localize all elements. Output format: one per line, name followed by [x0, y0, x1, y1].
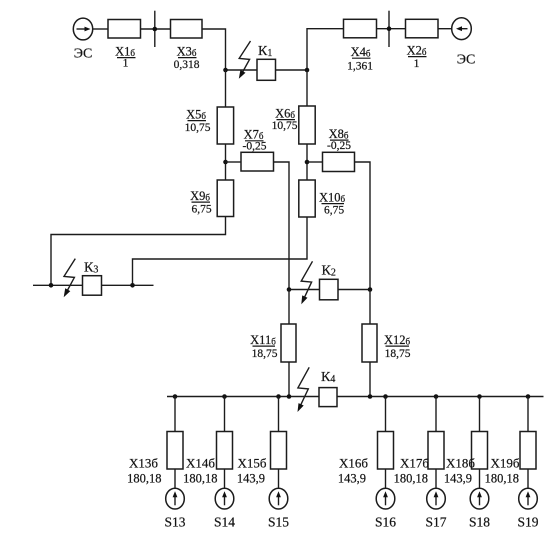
node feeder S19 junction	[526, 394, 531, 399]
svg-text:10,75: 10,75	[272, 120, 298, 132]
label X12b	[384, 333, 411, 347]
svg-text:Х18б: Х18б	[446, 456, 475, 471]
wire X6b to X10b	[306, 144, 308, 180]
svg-text:180,18: 180,18	[394, 472, 428, 486]
svg-text:Х15б: Х15б	[237, 456, 266, 471]
svg-text:-0,25: -0,25	[327, 140, 351, 152]
wire X5b to X9b	[225, 144, 227, 180]
wire source-left to X1b	[93, 28, 108, 30]
resistor X5b	[217, 107, 233, 144]
bus K3	[33, 284, 154, 286]
svg-text:1,361: 1,361	[347, 61, 373, 73]
resistor X13b	[167, 432, 183, 470]
resistor X2b	[406, 19, 439, 38]
label X3b	[177, 45, 197, 59]
svg-text:ЭС: ЭС	[74, 47, 93, 62]
wire X11b down to K4 bus	[288, 362, 290, 397]
breaker K4	[319, 388, 337, 407]
wire bus to X18b	[479, 397, 481, 432]
svg-text:S16: S16	[375, 515, 396, 530]
wire X12b down to K4 bus	[369, 362, 371, 397]
svg-text:0,318: 0,318	[174, 59, 200, 71]
breaker K2	[320, 279, 339, 300]
svg-text:18,75: 18,75	[385, 348, 411, 360]
svg-text:18,75: 18,75	[252, 348, 278, 360]
label X10b	[319, 191, 346, 205]
svg-text:6,75: 6,75	[324, 205, 344, 217]
wire X16b to load S16	[385, 469, 387, 489]
svg-text:Х14б: Х14б	[186, 456, 215, 471]
label X4b	[351, 45, 371, 59]
node feeder S18 junction	[477, 394, 482, 399]
svg-text:180,18: 180,18	[485, 472, 519, 486]
node K3 right junction	[130, 283, 135, 288]
wire K2 right down to X12b	[369, 290, 371, 325]
svg-text:6,75: 6,75	[191, 204, 211, 216]
wire K1 node down to X5b	[225, 70, 227, 107]
label X6b	[275, 107, 295, 121]
wire X19b to load S19	[527, 469, 529, 489]
node feeder S14 junction	[222, 394, 227, 399]
node feeder S17 junction	[434, 394, 439, 399]
svg-text:S15: S15	[268, 515, 289, 530]
wire X18b to load S18	[479, 469, 481, 489]
wire bus to X16b	[385, 397, 387, 432]
resistor X17b	[428, 432, 444, 470]
svg-text:ЭС: ЭС	[457, 53, 476, 68]
resistor X18b	[472, 432, 488, 470]
wire X8b left	[307, 161, 323, 163]
resistor X7b	[241, 152, 274, 171]
svg-text:-0,25: -0,25	[243, 140, 267, 152]
svg-text:180,18: 180,18	[127, 472, 161, 486]
node X12b bus junction	[368, 394, 373, 399]
resistor X14b	[217, 432, 233, 470]
node feeder S13 junction	[173, 394, 178, 399]
load S13	[166, 488, 185, 509]
resistor X4b	[344, 19, 377, 38]
wire K2 line left	[289, 289, 320, 291]
svg-text:Х17б: Х17б	[400, 456, 429, 471]
node K1 right junction	[305, 68, 310, 73]
wire K2 line right	[338, 289, 370, 291]
resistor X15b	[271, 432, 287, 470]
svg-text:143,9: 143,9	[237, 472, 265, 486]
label X7b	[244, 128, 264, 142]
wire X9b down to K3 feed	[51, 217, 226, 286]
wire K1 line right	[276, 69, 308, 71]
resistor X9b	[217, 180, 233, 217]
wire bus to X15b	[278, 397, 280, 432]
wire X7b right and down to K2	[274, 162, 290, 290]
source ЭС (right)	[452, 18, 472, 40]
wire X10b down to second feed	[133, 217, 308, 285]
breaker K3	[83, 276, 102, 296]
node X7b tap (left)	[223, 160, 228, 165]
svg-text:S14: S14	[214, 515, 235, 530]
fault arrow K4	[298, 367, 310, 412]
svg-text:S19: S19	[517, 515, 538, 530]
svg-text:180,18: 180,18	[183, 472, 217, 486]
wire X7b left	[226, 161, 242, 163]
svg-text:143,9: 143,9	[444, 472, 472, 486]
svg-text:143,9: 143,9	[338, 472, 366, 486]
resistor X8b	[323, 152, 355, 171]
resistor X19b	[520, 432, 536, 470]
source ЭС (left)	[73, 18, 92, 40]
wire X13b to load S13	[174, 469, 176, 489]
node K1 left junction	[223, 68, 228, 73]
svg-text:S13: S13	[164, 515, 185, 530]
label X8b	[329, 127, 349, 141]
wire bus to X13b	[174, 397, 176, 432]
node tick (left bus mark)	[153, 11, 158, 47]
node tick (right bus mark)	[387, 11, 392, 47]
svg-text:1: 1	[123, 58, 129, 70]
node K2 left junction	[287, 287, 292, 292]
wire K1 node down to X6b	[306, 70, 308, 106]
resistor X12b	[362, 324, 377, 362]
wire X8b right and down to K2	[355, 162, 371, 290]
node K2 right junction	[368, 287, 373, 292]
load S14	[215, 488, 234, 509]
fault arrow K3	[64, 259, 76, 298]
wire X4b to corner and down to K1 node	[307, 29, 344, 70]
label X1b	[115, 45, 135, 59]
svg-text:S18: S18	[469, 515, 490, 530]
load S15	[269, 488, 288, 509]
node feeder S16 junction	[383, 394, 388, 399]
node K3 left junction	[49, 283, 54, 288]
wire X15b to load S15	[278, 469, 280, 489]
svg-text:Х19б: Х19б	[490, 456, 519, 471]
wire X4b to X2b	[377, 28, 406, 30]
label X5b	[186, 108, 206, 122]
wire X2b to source-right	[438, 28, 452, 30]
svg-text:10,75: 10,75	[185, 122, 211, 134]
svg-text:Х13б: Х13б	[129, 456, 158, 471]
breaker K1	[257, 59, 276, 80]
wire X14b to load S14	[224, 469, 226, 489]
node feeder S15 junction	[276, 394, 281, 399]
wire K2 left down to X11b	[288, 290, 290, 325]
resistor X3b	[171, 20, 203, 39]
wire X17b to load S17	[435, 469, 437, 489]
resistor X11b	[281, 324, 296, 362]
node X11b bus junction	[287, 394, 292, 399]
label X11b	[250, 333, 276, 347]
wire bus to X19b	[527, 397, 529, 432]
svg-text:S17: S17	[425, 515, 446, 530]
svg-text:1: 1	[414, 58, 420, 70]
fault arrow K1	[239, 41, 251, 79]
wire bus to X14b	[224, 397, 226, 432]
wire K1 line left	[226, 69, 258, 71]
load S18	[470, 488, 489, 509]
label X2b	[407, 44, 427, 58]
wire X1b to X3b	[141, 28, 171, 30]
fault arrow K2	[301, 261, 312, 304]
label X9b	[190, 189, 210, 203]
resistor X6b	[299, 106, 315, 144]
load S16	[376, 488, 395, 509]
wire bus to X17b	[435, 397, 437, 432]
node X8b tap (right)	[305, 160, 310, 165]
resistor X10b	[299, 180, 315, 217]
resistor X1b	[108, 20, 141, 39]
load S19	[519, 488, 538, 509]
load S17	[427, 488, 446, 509]
svg-text:Х16б: Х16б	[339, 456, 368, 471]
wire X3b to corner and down to K1 node	[202, 29, 226, 70]
bus K4	[167, 396, 544, 398]
resistor X16b	[378, 432, 394, 470]
